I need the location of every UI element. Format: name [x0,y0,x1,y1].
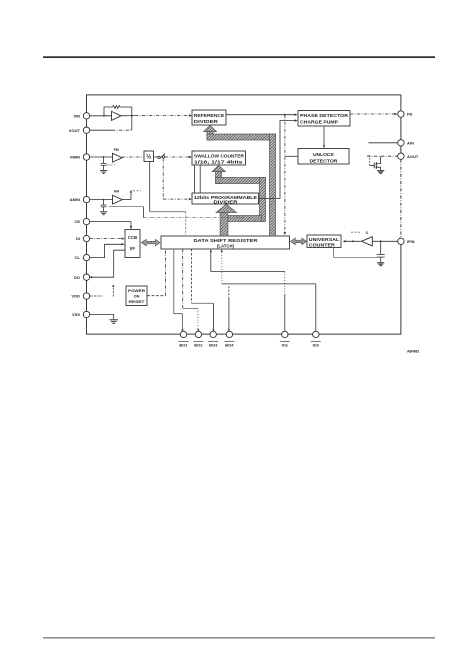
svg-text:I/F: I/F [130,246,135,251]
ground VSS [109,320,118,324]
wire CCB interface to DO [89,250,124,278]
capacitor C2 on AMIN [101,200,107,212]
IC boundary box [87,95,402,335]
svg-text:CCB: CCB [128,235,137,240]
universal counter block [307,235,341,248]
svg-text:ON: ON [134,294,140,299]
svg-text:REFERENCE: REFERENCE [194,113,225,118]
pin AMIN [70,196,90,202]
wire IF amp to universal counter [343,240,362,242]
wire latch to BO1 [174,249,184,332]
power on reset block [126,286,147,306]
svg-text:BO2: BO2 [194,343,203,348]
pin XIN [73,113,89,119]
pin BO2 [193,331,203,347]
svg-text:1/16, 1/17 4bits: 1/16, 1/17 4bits [194,159,243,164]
wire IFIN to IF amp [372,240,397,242]
pin AOUT [398,153,419,159]
divide-by-two block U2 [144,151,154,162]
svg-text:(LATCH): (LATCH) [217,243,235,248]
wire node to latch status input [284,115,286,236]
pin BO4 [224,331,234,347]
svg-text:PD: PD [407,112,413,117]
wire charge pump to PD [350,113,397,115]
data shift register latch block [161,236,290,249]
svg-text:POWER: POWER [128,288,145,293]
svg-text:DETECTOR: DETECTOR [310,158,339,163]
svg-text:IO1: IO1 [282,343,289,348]
svg-text:AM: AM [114,190,119,194]
wire FMIN to amplifier [90,156,113,158]
svg-text:FMIN: FMIN [70,155,80,160]
capacitor C1 on FMIN [101,157,115,170]
pin IFIN [398,238,415,244]
transistor Q1 AOUT driver [370,155,381,170]
svg-text:UNIVERSAL: UNIVERSAL [309,237,340,242]
pin XOUT [69,127,90,133]
resistor R1 oscillator feedback [113,106,121,109]
pin DO [74,274,90,280]
svg-text:CHARGE PUMP: CHARGE PUMP [300,120,338,125]
pin FMIN [70,154,89,160]
ground AM input [100,212,107,215]
wire oscillator to reference divider [121,114,192,116]
pin DI [76,235,90,241]
wire divide-by-two output to latch [150,162,186,236]
wire universal counter bias loop [334,248,378,258]
pin BO1 [179,331,189,347]
ground IFIN coupling [377,263,384,266]
svg-text:FM: FM [114,148,119,152]
svg-text:VSS: VSS [72,312,80,317]
svg-text:PHASE DETECTOR: PHASE DETECTOR [300,113,349,118]
svg-text:BO3: BO3 [209,343,218,348]
swallow counter block [192,151,246,165]
pin IO1 [280,331,290,347]
wire XOUT to oscillator [90,116,132,130]
bottom rule [43,637,435,639]
pin VSS [72,311,90,317]
capacitor C3 on IFIN [377,241,385,262]
svg-text:S: S [366,231,369,235]
wire swallow counter to programmable divider [195,165,201,193]
svg-text:CL: CL [75,255,81,260]
wire latch to BO3 [192,249,215,332]
svg-text:XOUT: XOUT [69,128,81,133]
svg-text:BO1: BO1 [179,343,188,348]
bus: CCB interface to latch (bidirectional) [142,239,161,245]
bus: latch to swallow counter [212,165,266,221]
wire phase detector to unlock detector [323,126,325,148]
wire VDD stub [90,295,103,297]
wire FM amp to divide-by-two [122,156,144,158]
svg-text:RESET: RESET [129,299,146,304]
wire AIN stub [369,142,398,144]
bus: latch to programmable divider [216,204,237,236]
svg-text:COUNTER: COUNTER [309,242,336,247]
wire IO1 to latch [210,249,285,331]
svg-text:AIN: AIN [407,140,414,145]
label IF amp [351,231,369,235]
pin BO3 [208,331,218,347]
wire switch to swallow counter [165,156,192,158]
svg-text:½: ½ [146,153,152,161]
wire AM coupling node A [109,207,250,218]
wire AOUT stub [367,155,398,157]
switch S1 FM/AM selector [154,154,165,159]
top rule [43,56,435,58]
wire XIN to oscillator input [90,115,112,117]
wire latch to BO4 [228,286,230,331]
svg-text:AOUT: AOUT [407,154,419,159]
svg-text:AB4861: AB4861 [407,350,420,354]
wire power on reset to latch [147,249,165,296]
op-amp A3 IF input amplifier [362,237,373,246]
svg-text:IO2: IO2 [313,343,320,348]
wire CE to CCB interface [90,222,133,230]
svg-text:DATA SHIFT REGISTER: DATA SHIFT REGISTER [194,238,259,243]
wire DI to CCB interface [90,237,125,239]
op-amp X1 crystal oscillator [112,111,122,120]
svg-text:DIVIDER: DIVIDER [214,200,239,205]
reference divider block [192,110,226,125]
ground AOUT driver [377,171,384,174]
pin VDD [72,293,90,299]
svg-text:DO: DO [74,275,80,280]
svg-text:SWALLOW COUNTER: SWALLOW COUNTER [194,154,245,159]
phase detector charge pump block [298,111,350,127]
svg-text:AMIN: AMIN [70,197,80,202]
wire programmable divider to phase detector [259,119,298,198]
wire oscillator feedback loop [104,107,133,117]
svg-text:IFIN: IFIN [407,239,415,244]
wire VDD to power on reset [112,284,114,296]
wire IO2 to latch [221,249,316,331]
pin CL [75,254,90,260]
wire latch to BO2 [183,249,200,332]
pin PD [398,111,413,117]
ground FM input [100,171,107,174]
pin CE [74,218,89,224]
svg-text:BO4: BO4 [225,343,234,348]
CCB interface block [125,230,140,258]
wire switch to programmable divider [163,158,192,200]
bus: latch to universal counter (bidirectional) [291,238,307,244]
svg-text:UNLOCK: UNLOCK [313,152,335,157]
pin AIN [398,140,414,146]
svg-text:CE: CE [74,219,80,224]
wire AMIN to amplifier [90,199,113,201]
svg-text:DI: DI [76,236,80,241]
op-amp A1 FM input amplifier [113,153,123,162]
svg-text:XIN: XIN [73,113,80,118]
wire AM amp output stub [122,190,141,200]
wire reference divider to phase detector [226,114,298,116]
unlock detector block [298,149,349,165]
svg-text:VDD: VDD [72,294,81,299]
wire unlock detector tap [285,155,298,157]
op-amp A2 AM input amplifier [113,195,123,204]
pin IO2 [311,331,321,347]
bus: latch to reference divider [204,125,276,236]
programmable divider block [192,193,259,205]
wire VSS to ground [90,315,114,320]
wire CL to CCB interface [90,243,125,258]
svg-text:DIVIDER: DIVIDER [194,119,219,124]
